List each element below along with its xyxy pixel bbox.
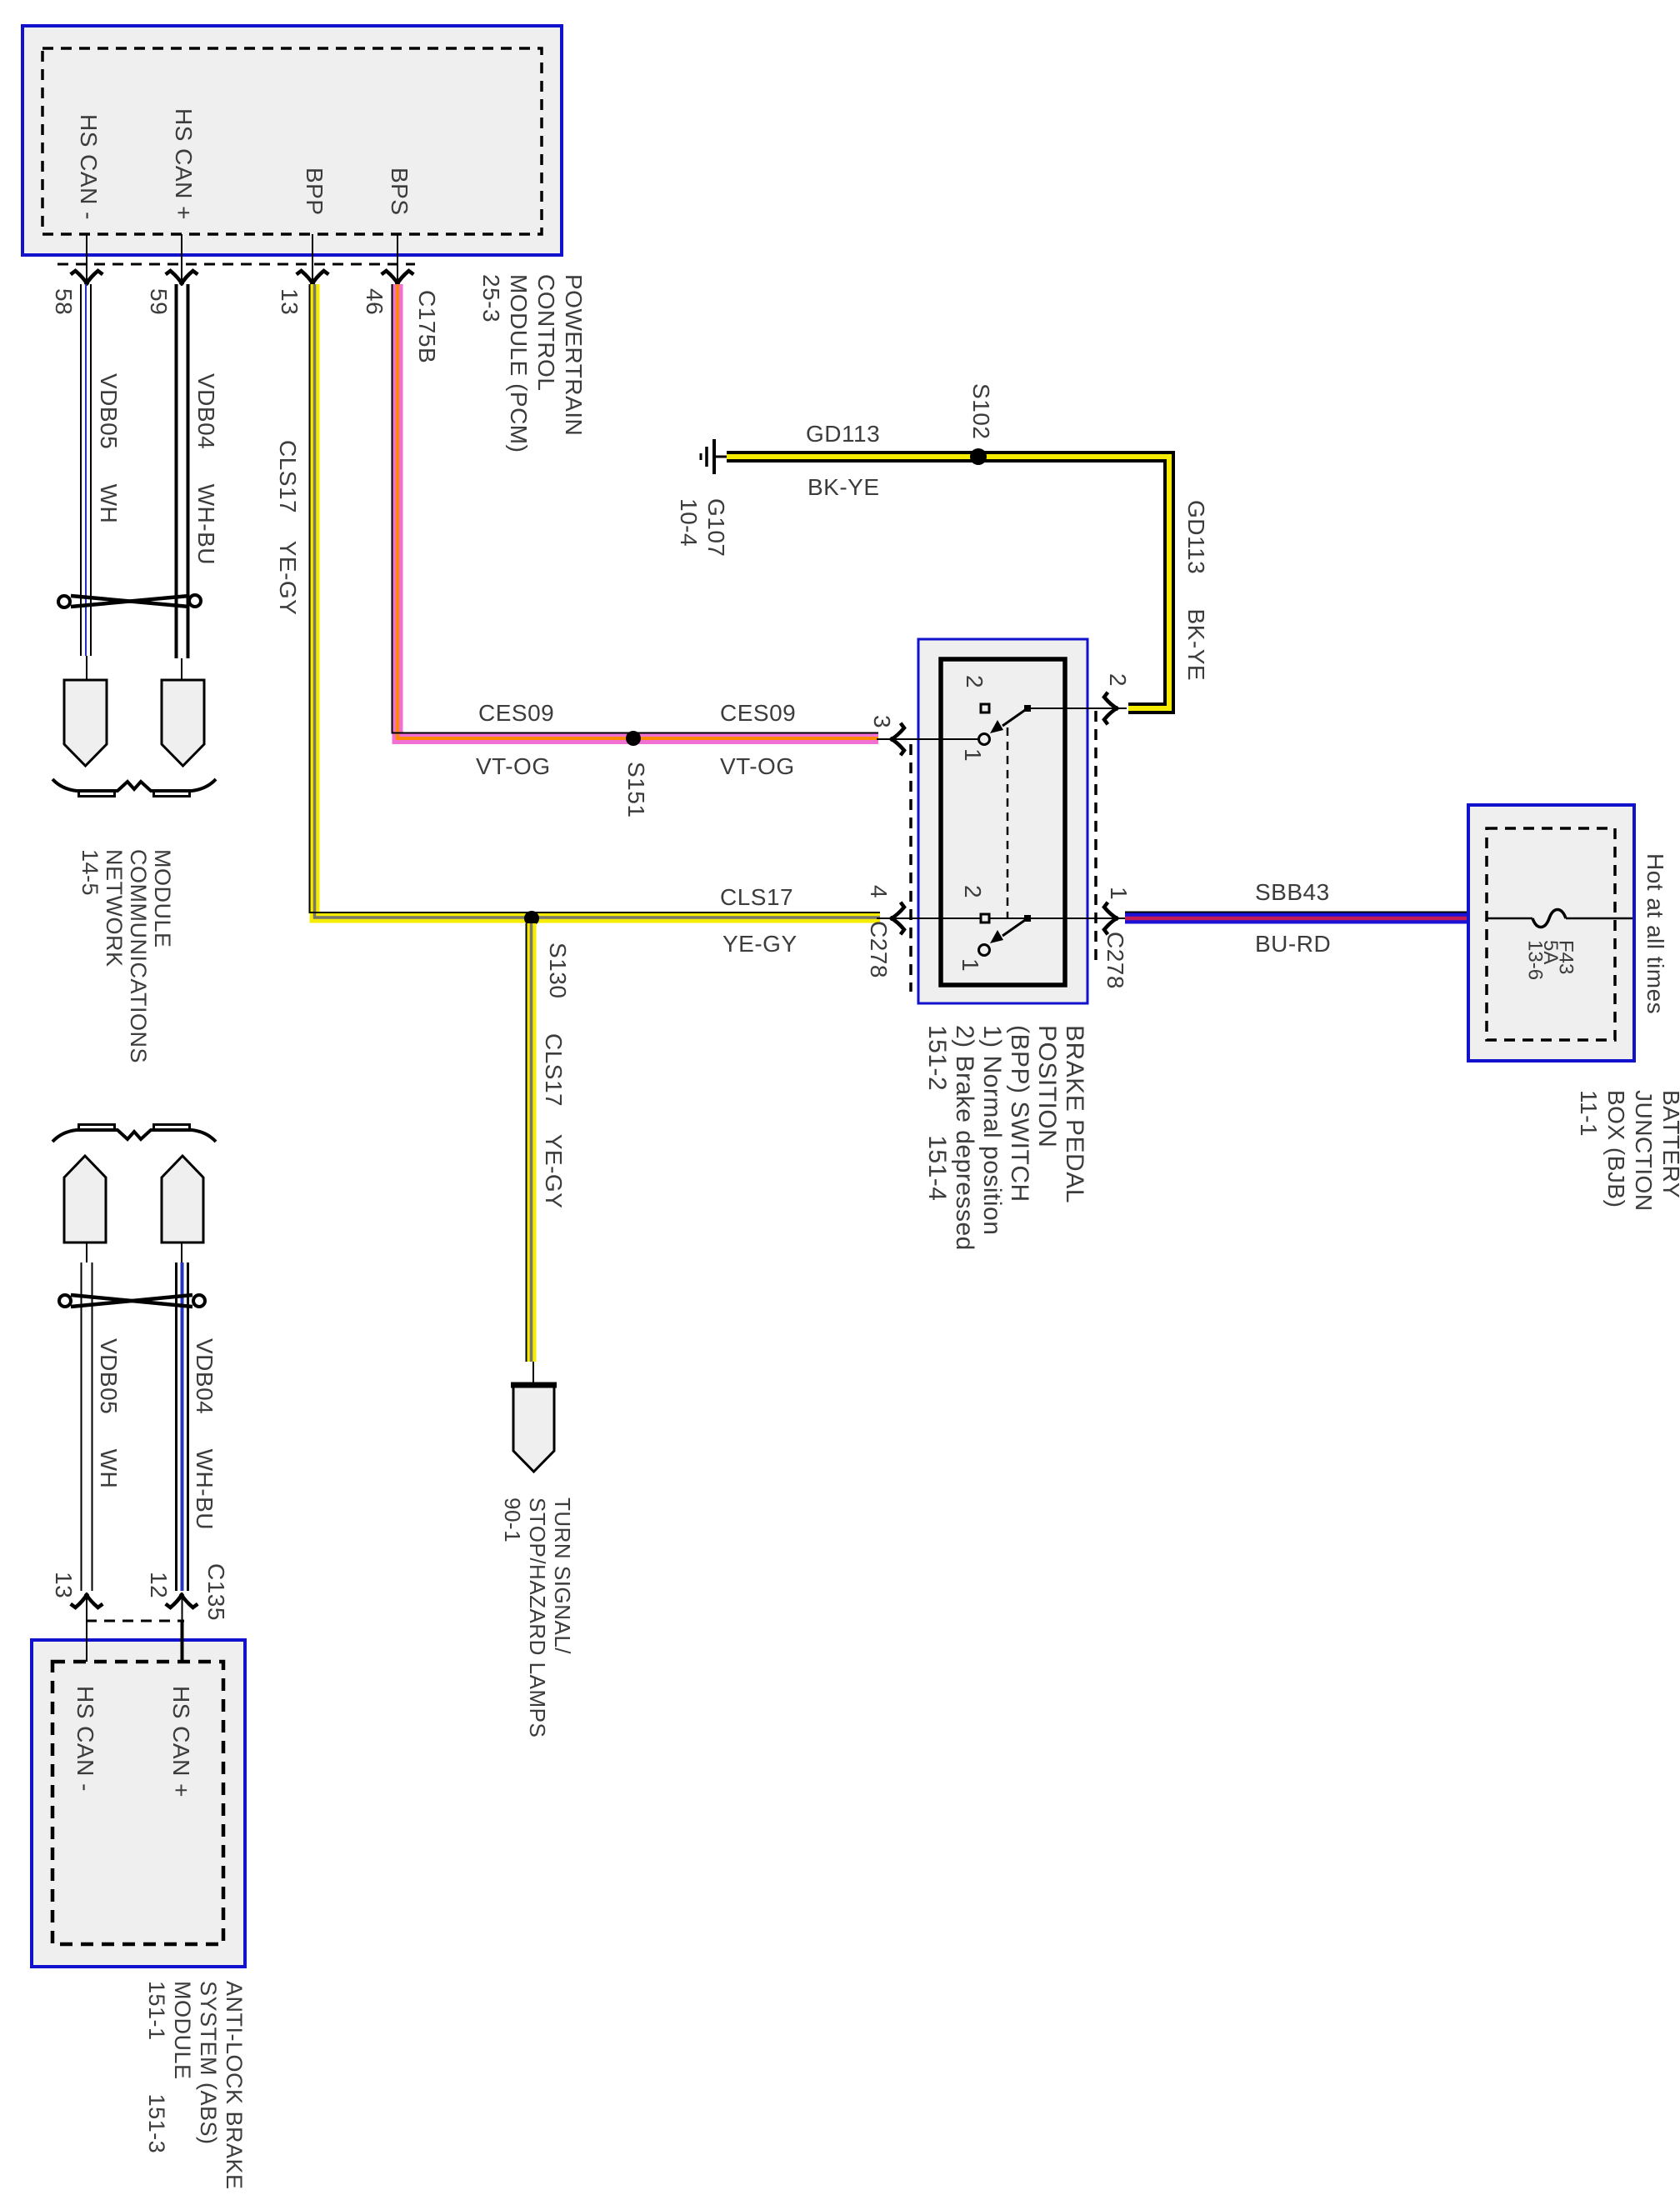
PCM title block <box>477 274 587 452</box>
switch pole A wires <box>877 708 1127 739</box>
wire label CLS17 YE-GY (branch) <box>540 1033 567 1208</box>
wire CLS17 YE-GY (pin 13) <box>310 284 881 918</box>
connector C278 dashed line (right) <box>1094 711 1097 965</box>
ABS module title block <box>143 1981 247 2190</box>
wire label CLS17 (horizontal) <box>720 885 793 910</box>
twisted pair crossover (bottom) <box>59 1295 205 1307</box>
shield pentagon up (wire 12) <box>162 1156 203 1242</box>
pin number 3 <box>868 715 896 728</box>
connector label C175B <box>413 290 441 363</box>
wire VDB05 WH (pin 58) <box>81 284 91 680</box>
switch pole A contacts and arm <box>979 704 1032 745</box>
label PCM pin HS CAN - <box>75 114 102 220</box>
module communications network label <box>77 849 174 1063</box>
brace (module communications network, bottom) <box>52 1127 216 1142</box>
connector arrow pin 2 <box>1104 694 1117 723</box>
wire label BK-YE (horizontal) <box>807 475 880 500</box>
wire CLS17 YE-GY branch to lamps <box>527 923 534 1385</box>
PCM pin stub 46 <box>397 234 398 281</box>
ABS pin stub 13 <box>86 1592 87 1662</box>
wire label VT-OG (left) <box>476 754 551 779</box>
PCM pin stub 59 <box>181 234 182 281</box>
fuse F43 5A <box>1487 910 1632 927</box>
turn signal lamps pentagon <box>511 1384 557 1472</box>
pin number 58 <box>50 288 77 315</box>
wire VDB04 WH-BU (ABS pin 12) <box>177 1242 188 1591</box>
splice S102 <box>970 448 987 465</box>
wire label VDB05 WH (top) <box>95 373 122 523</box>
pin number 13 (ABS) <box>50 1572 77 1598</box>
brace (module communications network, top) <box>52 779 216 794</box>
pin number 2 <box>1104 673 1132 687</box>
shield terminator pentagon (wire 58) <box>64 680 107 766</box>
pin number 12 (ABS) <box>145 1572 172 1598</box>
pin number 46 <box>361 288 388 315</box>
label PCM pin BPS <box>386 167 413 216</box>
Hot at all times label <box>1642 853 1669 1014</box>
wire VDB04 WH-BU (pin 59) <box>177 284 188 680</box>
connector arrow pin 58 <box>72 271 102 283</box>
fuse label F43 5A 13-6 <box>1527 940 1573 980</box>
switch contact label 2 (pole A) <box>961 675 988 688</box>
turn signal lamps title <box>500 1497 575 1737</box>
wire SBB43 BU-RD <box>1125 912 1468 919</box>
wire label VDB05 WH (bottom) <box>95 1338 122 1488</box>
wire label VDB04 WH-BU (bottom) <box>191 1338 218 1530</box>
connector C175B dashed line <box>57 263 415 266</box>
connector arrow ABS pin 13 <box>72 1595 102 1607</box>
shield pentagon up (wire 13) <box>64 1156 106 1242</box>
label ABS pin HS CAN + <box>167 1686 195 1797</box>
switch pole B contacts and arm <box>979 914 1032 956</box>
connector label C278 (right) <box>1102 932 1129 989</box>
pin number 59 <box>145 288 172 315</box>
connector arrow pin 4 <box>892 904 904 933</box>
PCM pin stub 13 <box>312 234 313 281</box>
switch linkage dashed line <box>1007 727 1009 917</box>
battery junction box title <box>1575 1090 1680 1212</box>
label PCM pin HS CAN + <box>170 108 197 220</box>
splice S130 <box>524 911 539 926</box>
battery junction box <box>1468 805 1634 1061</box>
wire CES09 VT-OG (pin 46) <box>392 284 879 739</box>
wire label GD113 BK-YE (vertical) <box>1182 500 1210 681</box>
connector arrow pin 1 <box>1104 904 1117 933</box>
connector C278 dashed line (left) <box>909 744 912 992</box>
wire label GD113 (horizontal) <box>806 422 880 447</box>
BPP switch box <box>918 639 1087 1003</box>
ground G107 symbol <box>701 439 728 474</box>
splice S151 <box>626 731 641 746</box>
wire label VT-OG (right) <box>720 754 795 779</box>
PCM pin stub 58 <box>86 234 87 281</box>
pin number 4 <box>865 885 892 898</box>
ABS module box <box>32 1640 245 1967</box>
switch contact label 2 (pole B) <box>959 885 987 898</box>
splice label S130 <box>544 942 572 998</box>
wire label CES09 (right) <box>720 701 796 726</box>
twisted pair crossover (top) <box>58 595 201 607</box>
wire label YE-GY (horizontal) <box>722 932 797 957</box>
splice label S102 <box>967 383 995 439</box>
wire label CES09 (left) <box>478 701 554 726</box>
switch contact label 1 (pole A) <box>959 748 987 762</box>
wire label BU-RD <box>1255 932 1331 957</box>
pin number 13 <box>276 288 303 315</box>
connector arrow pin 3 <box>892 725 904 754</box>
wire VDB05 WH (ABS pin 13) <box>82 1242 92 1591</box>
pin number 1 <box>1105 887 1132 900</box>
connector arrow pin 59 <box>167 271 197 283</box>
connector arrow pin 46 <box>383 271 412 283</box>
switch contact label 1 (pole B) <box>957 958 984 972</box>
wire label VDB04 WH-BU (top) <box>192 373 220 565</box>
splice label S151 <box>622 762 650 817</box>
connector C135 dashed line <box>86 1620 184 1622</box>
PCM module box <box>22 26 562 255</box>
ABS pin stub 12 <box>182 1592 183 1621</box>
shield terminator pentagon (wire 59) <box>162 680 204 766</box>
connector arrow ABS pin 12 <box>167 1595 197 1607</box>
connector arrow pin 13 <box>298 271 327 283</box>
connector label C135 <box>202 1563 230 1621</box>
ground label G107 10-4 <box>675 498 730 557</box>
connector label C278 (left) <box>865 921 892 978</box>
wire label SBB43 <box>1255 880 1330 905</box>
label PCM pin BPP <box>301 167 328 216</box>
BPP switch title block <box>923 1025 1088 1251</box>
label ABS pin HS CAN - <box>72 1686 99 1792</box>
switch pole B wires <box>877 917 1127 919</box>
wire GD113 BK-YE <box>727 457 1169 708</box>
wire label CLS17 YE-GY (pin13 vertical) <box>274 440 302 615</box>
